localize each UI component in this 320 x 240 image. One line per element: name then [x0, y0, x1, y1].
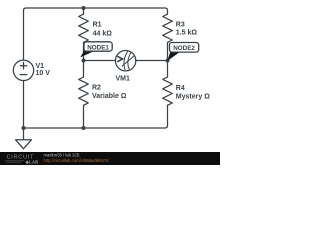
- svg-text:VM1: VM1: [116, 75, 131, 82]
- svg-text:44 kΩ: 44 kΩ: [93, 30, 113, 37]
- svg-text:Mystery Ω: Mystery Ω: [176, 94, 210, 101]
- svg-text:mattkm56 / lab 2(3): mattkm56 / lab 2(3): [44, 153, 81, 158]
- svg-text:R4: R4: [176, 85, 185, 92]
- svg-text:NODE1: NODE1: [87, 44, 109, 51]
- svg-text:R3: R3: [176, 21, 185, 28]
- svg-text:V1: V1: [36, 63, 45, 70]
- svg-text:http://circuitlab.com/c/958ad9: http://circuitlab.com/c/958ad9rk57d: [44, 158, 110, 163]
- svg-text:Variable Ω: Variable Ω: [92, 93, 127, 100]
- svg-text:◆LAB: ◆LAB: [25, 159, 40, 164]
- svg-text:10 V: 10 V: [36, 70, 51, 77]
- svg-text:R1: R1: [93, 21, 102, 28]
- svg-text:NODE2: NODE2: [173, 45, 195, 52]
- svg-text:R2: R2: [92, 85, 101, 92]
- svg-text:1.5 kΩ: 1.5 kΩ: [176, 30, 198, 37]
